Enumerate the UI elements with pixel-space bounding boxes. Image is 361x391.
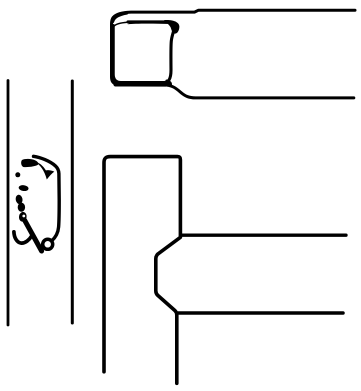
tool bit bottom thick stroke <box>116 82 167 86</box>
squiggle: bottom ring <box>43 239 53 249</box>
right vertical line (workpiece right edge) <box>71 81 74 323</box>
upper horizontal line (chip face) <box>181 234 346 237</box>
tool holder outline (bottom assembly) <box>104 157 180 384</box>
tool bit bottom-right junction blob <box>164 80 173 87</box>
squiggle: top-right loop stroke <box>34 156 60 241</box>
squiggle: check-mark stroke <box>36 162 55 180</box>
tool bit top-right corner blob <box>164 20 179 34</box>
tool head corner swell stroke <box>112 13 126 22</box>
tool bit inner square <box>113 22 174 83</box>
squiggle: long diagonal stroke <box>25 220 42 251</box>
squiggle: left bead 3 <box>18 203 25 212</box>
squiggle: left bead 1 <box>18 185 29 192</box>
tool bit top edge thick wedge <box>128 21 172 25</box>
tool head outer outline (top assembly) <box>112 10 356 98</box>
squiggle: bead 4 white center <box>22 215 25 218</box>
squiggle: top-left dash blob <box>21 159 38 167</box>
squiggle: left bead 4 <box>18 211 27 222</box>
left vertical line (workpiece left edge) <box>7 81 10 326</box>
tool bit top-left thin corner link <box>114 22 128 26</box>
squiggle: bottom-left hook <box>14 232 32 243</box>
lower horizontal line (base face) <box>178 311 343 315</box>
squiggle: dot <box>15 172 20 177</box>
squiggle: left bead 2 <box>15 194 23 204</box>
